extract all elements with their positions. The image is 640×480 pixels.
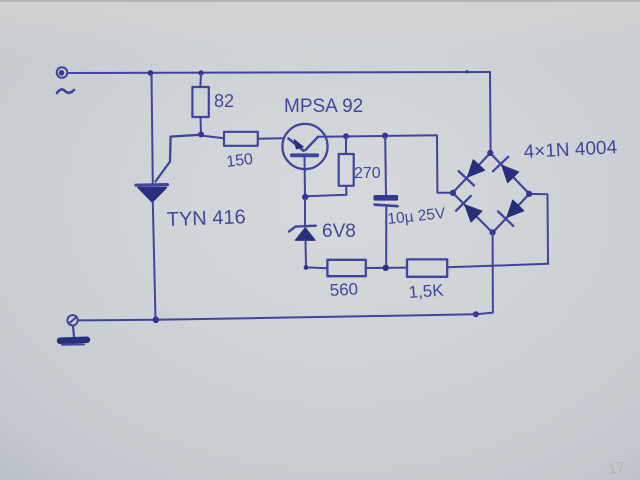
resistor R1 82 xyxy=(192,74,208,133)
wire thyristor cathode vertical xyxy=(153,202,156,320)
diode D4 lower-right xyxy=(498,200,523,226)
diode D1 upper-left xyxy=(459,160,485,186)
node bridge left vertex xyxy=(450,190,456,196)
node junction above 82 xyxy=(198,70,203,75)
ground bar xyxy=(60,326,87,345)
svg-text:TYN 416: TYN 416 xyxy=(166,206,246,231)
node junction above 270 xyxy=(343,133,349,139)
wire thyristor anode vertical xyxy=(152,74,153,183)
thyristor TYN416 xyxy=(136,185,168,202)
wire bridge bottom leg xyxy=(476,233,493,314)
node corner below zener xyxy=(304,265,309,270)
diode D3 lower-left xyxy=(456,196,482,222)
wire zener to 560 xyxy=(306,266,327,269)
wire bottom horizontal xyxy=(78,314,476,320)
wire collector row right xyxy=(318,135,452,193)
wire bridge right leg xyxy=(530,194,548,264)
terminal AC top xyxy=(57,67,68,78)
wire gate bend xyxy=(156,135,200,182)
node junction gate/base xyxy=(198,132,204,138)
bridge rectifier diamond xyxy=(453,153,530,233)
terminal AC bottom xyxy=(67,315,77,325)
svg-text:150: 150 xyxy=(225,151,254,171)
node junction above capacitor xyxy=(382,133,388,139)
svg-text:270: 270 xyxy=(354,165,381,182)
node junction emitter xyxy=(302,194,308,200)
zener diode D5 6V8 xyxy=(289,198,316,267)
wire top horizontal xyxy=(68,72,491,73)
node junction bottom left xyxy=(153,317,160,324)
node small dot on top wire xyxy=(465,70,468,73)
resistor R2 150 xyxy=(203,132,283,146)
svg-text:1,5K: 1,5K xyxy=(408,281,445,302)
svg-text:MPSA 92: MPSA 92 xyxy=(284,96,363,117)
diode D2 upper-right xyxy=(493,157,519,183)
svg-text:17: 17 xyxy=(607,459,626,478)
node junction below capacitor xyxy=(383,265,389,271)
svg-text:82: 82 xyxy=(214,91,234,111)
transistor Q1 MPSA92 xyxy=(282,124,327,196)
node junction bottom right xyxy=(473,311,479,317)
resistor R4 560 xyxy=(327,260,407,276)
svg-text:560: 560 xyxy=(329,280,358,300)
node bridge right vertex xyxy=(526,191,532,197)
svg-text:6V8: 6V8 xyxy=(322,221,356,242)
node junction top-left xyxy=(148,70,154,76)
capacitor C1 10u xyxy=(374,137,398,267)
AC tilde symbol xyxy=(57,89,74,93)
resistor R3 270 xyxy=(307,137,354,196)
node bridge bottom vertex xyxy=(490,229,496,235)
resistor R5 1.5K xyxy=(407,259,548,276)
wire right vertical to bridge top xyxy=(489,72,492,152)
node bridge top vertex xyxy=(487,150,493,156)
